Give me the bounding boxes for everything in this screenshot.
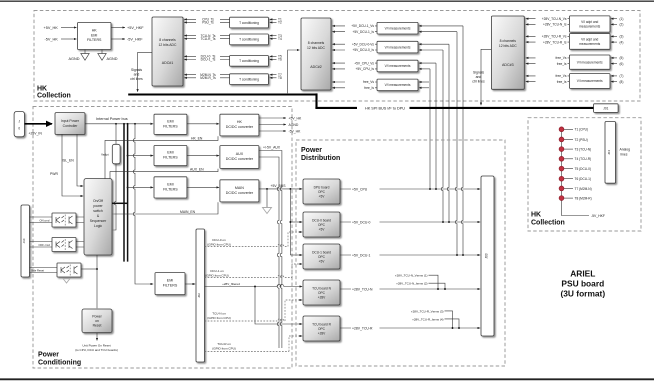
svg-text:+28V_TCU-N_Vsens (1): +28V_TCU-N_Vsens (1) xyxy=(395,274,428,278)
dashed box Power Conditioning xyxy=(33,107,292,369)
svg-text:J02: J02 xyxy=(197,293,201,298)
svg-text:+28V: +28V xyxy=(318,331,326,335)
svg-text:(3U format): (3U format) xyxy=(560,289,605,299)
svg-text:(3): (3) xyxy=(620,35,624,39)
connector J03 power outputs xyxy=(481,176,494,336)
wire vertical sense +5V_DCU-1 Is xyxy=(455,32,457,255)
wire DCU-0 on (GPIO from CPU) xyxy=(205,232,303,247)
wire +28V_filtered J02 to TCU-N OPC xyxy=(205,282,303,286)
wire T7 into T conditioning xyxy=(270,73,282,77)
block OPC DCU-1 board xyxy=(303,244,340,269)
optocoupler ON command xyxy=(52,213,76,227)
svg-text:Collection: Collection xyxy=(37,93,71,100)
wire J10 to ON optocoupler xyxy=(30,217,53,223)
svg-text:T2 (PSU): T2 (PSU) xyxy=(575,138,588,142)
svg-text:(GPIO from CPU): (GPIO from CPU) xyxy=(205,273,229,277)
svg-text:free_Vs: free_Vs xyxy=(556,56,567,60)
label Power Distribution xyxy=(301,147,340,162)
wire pin (6) into V/I block xyxy=(611,62,624,66)
connector J04 analog lines xyxy=(605,122,616,184)
wire +28V_TCU-N_Vs into ADC#3 xyxy=(526,17,570,21)
svg-text:+5V: +5V xyxy=(319,259,326,263)
wire +5V_HK into HK EMI filter xyxy=(44,26,77,30)
wire -5V_HKF output xyxy=(111,37,143,41)
wire Vadj line down to sequencer xyxy=(113,124,117,230)
label +28V_TCU-N_Isens (2) tap xyxy=(396,282,446,290)
wire EMI2 to AUX DC/DC xyxy=(187,155,219,157)
wire EMI1 to HK DC/DC xyxy=(187,123,219,125)
svg-text:ctrl lines: ctrl lines xyxy=(472,80,485,84)
svg-text:OPC: OPC xyxy=(318,291,326,295)
svg-text:FILTERS: FILTERS xyxy=(163,188,178,192)
svg-text:+28V_TCU-R_Vs: +28V_TCU-R_Vs xyxy=(542,35,567,39)
wire +28V_TCU-N output to J03 xyxy=(340,287,480,292)
wire PSU_Ts into ADC#1 xyxy=(184,21,229,25)
wire vertical sense +5V_DCU-1 Vs xyxy=(461,26,463,255)
wire switch output to +28V bus pair xyxy=(112,202,128,204)
node junction +28V_filtered branch xyxy=(254,286,256,288)
label Analog lines xyxy=(620,148,631,157)
wire M2M-N_Ts into ADC#1 xyxy=(184,73,229,77)
wire CPU Is sense feed xyxy=(419,68,430,70)
block Vadpt regulator xyxy=(101,144,120,164)
ground AGND right xyxy=(98,50,118,62)
bus HK SPI BUS right segment xyxy=(410,107,595,109)
wire +28V_IN arrow J0 to Input Power Controller xyxy=(25,124,53,136)
svg-text:MAIN: MAIN xyxy=(235,186,244,190)
dashed box HK Collection (top) xyxy=(34,11,640,102)
block V/I measurements 3 xyxy=(377,60,418,72)
block V/I measurements 3 (ADC#3) xyxy=(569,55,610,69)
svg-text:HK: HK xyxy=(531,212,541,219)
svg-text:8 channels: 8 channels xyxy=(308,41,325,45)
svg-text:+/-5V_AUX: +/-5V_AUX xyxy=(263,146,281,150)
filter U-HKEMI HK EMI FILTERS xyxy=(78,23,112,50)
filter U-EMI4 EMI FILTERS (+28V dist) xyxy=(155,273,185,295)
svg-text:V/I measurements: V/I measurements xyxy=(577,79,603,83)
connector J02 power distribution control xyxy=(196,229,205,362)
wire DCU-1 on (GPIO from CPU) xyxy=(205,264,303,278)
svg-text:0: 0 xyxy=(18,126,20,130)
svg-text:Analog: Analog xyxy=(620,148,631,152)
wire +28V_filtered branch to TCU-R OPC xyxy=(255,287,302,325)
svg-text:Power: Power xyxy=(38,352,59,359)
wire ON optocoupler to sequencer xyxy=(76,217,84,223)
wire unit power on reset output xyxy=(96,333,98,341)
svg-text:T6: T6 xyxy=(278,58,282,62)
svg-text:HK: HK xyxy=(237,120,243,124)
wire +5V_CPU output to J03 xyxy=(340,187,480,192)
node junction +5V DCU-0 tap xyxy=(289,221,291,223)
thermistor T3 sensor dot and label xyxy=(559,147,591,152)
svg-text:OFF cmd: OFF cmd xyxy=(39,243,51,247)
svg-text:+28V_TCU-R_Is: +28V_TCU-R_Is xyxy=(543,40,567,44)
label Unit Power On Reset xyxy=(75,343,118,352)
wire +/-5V_AUX rail A xyxy=(259,146,282,348)
block OPC TCU board N xyxy=(303,280,340,305)
svg-text:V/I measurements: V/I measurements xyxy=(385,26,411,30)
block T conditioning 1 xyxy=(230,17,269,28)
svg-text:lines: lines xyxy=(621,153,628,157)
wire internal power bus IPC to EMI filter 1 xyxy=(85,117,153,124)
thermistor T7 sensor dot and label xyxy=(559,186,592,191)
wire -5V_HK output of HK DC/DC xyxy=(259,129,301,133)
svg-text:+28V_TCU-N_Vs: +28V_TCU-N_Vs xyxy=(542,17,567,21)
svg-text:Power: Power xyxy=(301,147,322,154)
wire thermistor common return xyxy=(562,129,590,215)
svg-text:V/I measurements: V/I measurements xyxy=(577,60,603,64)
thermistor T4 sensor dot and label xyxy=(559,156,591,161)
svg-text:+28V_TCU-R_Vsens (3): +28V_TCU-R_Vsens (3) xyxy=(411,309,444,313)
svg-text:+5V_DCU-0: +5V_DCU-0 xyxy=(352,220,370,224)
svg-text:TCU board R: TCU board R xyxy=(312,322,331,326)
svg-text:+28V: +28V xyxy=(318,295,326,299)
svg-text:OPC: OPC xyxy=(318,255,326,259)
block OPC DPU board xyxy=(303,179,340,204)
svg-text:T conditioning: T conditioning xyxy=(239,77,259,81)
wire pin (8) into V/I block xyxy=(611,80,624,84)
svg-text:+28V_TCU-N_Is: +28V_TCU-N_Is xyxy=(543,23,567,27)
svg-text:T4: T4 xyxy=(278,37,282,41)
svg-text:AGND: AGND xyxy=(69,57,80,61)
svg-text:+5V_CPU: +5V_CPU xyxy=(352,187,368,191)
svg-text:(5): (5) xyxy=(620,56,624,60)
svg-text:AUX_EN: AUX_EN xyxy=(190,168,204,172)
node junction +5V distribution tap xyxy=(289,188,291,190)
label HK Collection (thermistors) xyxy=(531,212,565,227)
block U-IPC Input Power Controller xyxy=(55,113,85,135)
label Signals and ctrl lines (ADC#1) xyxy=(130,68,143,81)
wire +5V_CPU_Is into ADC#2 xyxy=(332,67,377,71)
svg-text:FILTERS: FILTERS xyxy=(163,156,178,160)
svg-text:DCU-1 board: DCU-1 board xyxy=(312,250,331,254)
wire CPU_Ts into ADC#1 xyxy=(184,18,229,22)
wire PWR IPC to sequencer xyxy=(50,134,83,196)
svg-text:DCU-0 on: DCU-0 on xyxy=(212,238,226,242)
block U-SEQ On/Off power switch and Sequencer Logic xyxy=(84,179,112,255)
wire vertical sense +5V_DCU-0 Vs xyxy=(447,44,449,222)
connector J0 +28V input xyxy=(14,111,24,136)
svg-text:J01: J01 xyxy=(603,107,608,111)
svg-text:+5V_BUS: +5V_BUS xyxy=(271,184,287,188)
block V/I adpt and measurements 2 (ADC#3) xyxy=(569,34,610,50)
svg-text:AUX: AUX xyxy=(236,152,244,156)
wire pin (1) into V/I block xyxy=(611,17,624,21)
wire TCU-R_Ts into ADC#1 xyxy=(184,37,229,41)
wire EMI4 to J02 xyxy=(185,283,195,285)
svg-text:TCU-R_Ts: TCU-R_Ts xyxy=(201,37,216,41)
ground AGND left xyxy=(69,50,90,62)
svg-text:OPC: OPC xyxy=(318,223,326,227)
label +28V_TCU-N_Vsens (1) tap xyxy=(395,274,439,290)
svg-text:(GPIO from CPU): (GPIO from CPU) xyxy=(207,242,231,246)
thermistor T2 sensor dot and label xyxy=(559,137,588,142)
svg-text:(2): (2) xyxy=(620,23,624,27)
wire -5V_HK into HK EMI filter xyxy=(45,37,77,41)
svg-text:EMI: EMI xyxy=(167,151,173,155)
svg-text:+28V_TCU-R_Isens (4): +28V_TCU-R_Isens (4) xyxy=(412,317,443,321)
svg-text:12 bits ADC: 12 bits ADC xyxy=(307,46,325,50)
svg-text:DCU-1_Ts: DCU-1_Ts xyxy=(201,58,216,62)
svg-text:measurements: measurements xyxy=(579,24,600,28)
bus HK SPI BUS middle segment xyxy=(315,107,357,109)
wire TCU-R on (GPIO from CPU) xyxy=(205,336,303,352)
wire ISL_EN IPC to sequencer xyxy=(62,134,83,186)
wire CPU Vs sense feed xyxy=(419,62,436,64)
svg-text:free_Is: free_Is xyxy=(557,80,567,84)
svg-text:on: on xyxy=(95,319,99,323)
svg-text:FILTERS: FILTERS xyxy=(163,124,178,128)
wire +5V_DCU-0_Is into ADC#2 xyxy=(332,48,377,52)
svg-text:V/I measurements: V/I measurements xyxy=(385,83,411,87)
svg-text:EMI: EMI xyxy=(167,183,173,187)
block V/I adpt and measurements 1 (ADC#3) xyxy=(569,16,610,32)
wire +/-5V_AUX rail B xyxy=(259,157,279,348)
svg-text:Distribution: Distribution xyxy=(301,155,340,162)
svg-text:+5V: +5V xyxy=(319,227,326,231)
wire T3 into T conditioning xyxy=(270,34,282,38)
svg-text:Input Power: Input Power xyxy=(61,119,80,123)
wire +28V_TCU-R_Is into ADC#3 xyxy=(526,40,570,44)
svg-text:Signals: Signals xyxy=(473,71,484,75)
svg-text:and: and xyxy=(476,75,482,79)
svg-text:+5V_HK: +5V_HK xyxy=(44,26,59,30)
wire EMI3 to MAIN DC/DC xyxy=(187,186,219,188)
svg-text:Side Reset: Side Reset xyxy=(31,268,44,272)
wire +5V feed to DCU-1 OPC xyxy=(290,254,302,256)
svg-text:EMI: EMI xyxy=(91,33,97,37)
svg-text:HK SPI BUS I/F to DPU: HK SPI BUS I/F to DPU xyxy=(365,106,405,110)
label Signals and ctrl lines (ADC#3) xyxy=(472,71,485,84)
wire +5V_DCU-0 output to J03 xyxy=(340,220,480,225)
thermistor T5 sensor dot and label xyxy=(559,166,591,171)
svg-text:free_Is: free_Is xyxy=(364,86,374,90)
wire signals/ctrl ADC#1 to HK SPI bus xyxy=(138,52,152,91)
svg-text:T3 (TCU-N): T3 (TCU-N) xyxy=(575,148,592,152)
svg-text:DC/DC converter: DC/DC converter xyxy=(226,191,254,195)
wire free_Vs into ADC#3 xyxy=(526,56,570,60)
filter U-EMI3 EMI FILTERS (MAIN) xyxy=(154,177,187,198)
svg-text:+5V_HKF: +5V_HKF xyxy=(127,26,144,30)
svg-text:-5V_HK: -5V_HK xyxy=(45,37,59,41)
svg-text:+28V_filtered: +28V_filtered xyxy=(222,282,240,286)
svg-text:V/I measurements: V/I measurements xyxy=(385,64,411,68)
optocoupler OFF command xyxy=(52,238,76,252)
svg-text:(GPIO from CPU): (GPIO from CPU) xyxy=(212,347,236,351)
block T conditioning 2 xyxy=(230,34,269,45)
svg-text:AGND: AGND xyxy=(289,123,299,127)
thermistor T8 sensor dot and label xyxy=(559,196,592,201)
slide top border line xyxy=(0,0,654,2)
svg-text:Signals: Signals xyxy=(131,68,142,72)
svg-text:+5V_CPU_Is: +5V_CPU_Is xyxy=(355,67,374,71)
wire +28V power bus vertical pair B xyxy=(127,124,129,262)
wire +28V power bus vertical pair A xyxy=(123,124,125,262)
node junction ground tap on +5V_BUS xyxy=(266,188,268,190)
svg-text:FILTERS: FILTERS xyxy=(163,284,178,288)
svg-text:measurements: measurements xyxy=(579,42,600,46)
svg-text:J04: J04 xyxy=(607,150,611,155)
node junction Vadj tap xyxy=(115,123,117,125)
svg-text:PSU_Ts: PSU_Ts xyxy=(202,21,214,25)
node junction power bus pair taps xyxy=(123,123,136,125)
bus HK SPI BUS left segment xyxy=(128,93,316,95)
svg-text:+28V_TCU-R: +28V_TCU-R xyxy=(352,326,373,330)
svg-text:Logic: Logic xyxy=(94,224,102,228)
wire T2 into T conditioning xyxy=(270,21,282,25)
svg-text:T8: T8 xyxy=(278,76,282,80)
svg-text:-5V_HKF: -5V_HKF xyxy=(591,214,605,218)
label HK Collection (top) xyxy=(37,85,71,99)
label Power Conditioning xyxy=(38,352,81,367)
svg-text:V/I measurements: V/I measurements xyxy=(385,45,411,49)
wire +5V distribution vertical to DCU rows xyxy=(289,189,291,255)
wire vertical sense +5V_CPU Vs xyxy=(429,69,431,189)
svg-text:+28V_TCU-N_Isens (2): +28V_TCU-N_Isens (2) xyxy=(396,282,427,286)
filter U-EMI2 EMI FILTERS (AUX) xyxy=(154,146,187,166)
svg-text:ARIEL: ARIEL xyxy=(570,268,595,278)
svg-text:FILTERS: FILTERS xyxy=(87,38,102,42)
svg-text:(to CPU, DCU and TCU boards): (to CPU, DCU and TCU boards) xyxy=(75,348,118,352)
svg-text:(8): (8) xyxy=(620,80,624,84)
wire free stub 1 on V/I measurements 4 xyxy=(419,81,429,83)
svg-text:EMI: EMI xyxy=(167,279,173,283)
svg-text:Conditioning: Conditioning xyxy=(38,359,81,366)
svg-text:Power: Power xyxy=(92,315,102,319)
wire T6 into T conditioning xyxy=(270,58,282,62)
wire pin (7) into V/I block xyxy=(611,74,624,78)
wire sequencer to Power on Reset xyxy=(96,255,98,308)
svg-text:T1 (CPU): T1 (CPU) xyxy=(575,128,588,132)
svg-text:PSU board: PSU board xyxy=(561,279,604,289)
svg-text:and: and xyxy=(134,73,140,77)
svg-text:ADC#3: ADC#3 xyxy=(502,63,514,67)
wire MAIN_EN enable xyxy=(112,202,218,214)
wire free stub 2 on V/I measurements 4 xyxy=(419,87,429,89)
dashed box HK Collection (thermistors) xyxy=(528,118,641,231)
block OPC TCU board R xyxy=(303,316,340,341)
svg-text:PWR: PWR xyxy=(50,172,58,176)
svg-text:TCU-N on: TCU-N on xyxy=(212,312,226,316)
svg-text:DPU board: DPU board xyxy=(314,185,330,189)
wire DCU-0_Ts into ADC#1 xyxy=(184,55,229,59)
svg-text:HK: HK xyxy=(37,85,47,92)
dashed box Power Distribution xyxy=(296,140,505,366)
wire +5V_DCU-1_Vs into ADC#2 xyxy=(332,24,377,28)
block U-MAINDC MAIN DC/DC converter xyxy=(220,180,259,202)
svg-text:+28V_IN: +28V_IN xyxy=(29,131,43,135)
wire pin (2) into V/I block xyxy=(611,23,624,27)
svg-text:+5V_DCU-1_Vs: +5V_DCU-1_Vs xyxy=(351,24,374,28)
svg-text:HK_EN: HK_EN xyxy=(191,136,203,140)
svg-text:(GPIO from CPU): (GPIO from CPU) xyxy=(207,316,231,320)
wire free_Vs into ADC#2 xyxy=(332,80,377,84)
svg-text:-5V_HKF: -5V_HKF xyxy=(127,37,143,41)
wire DCU-1_Ts into ADC#1 xyxy=(184,58,229,62)
svg-text:free_Vs: free_Vs xyxy=(556,74,567,78)
wire free_Is into ADC#3 xyxy=(526,62,570,66)
block V/I measurements 4 xyxy=(377,79,418,91)
svg-text:ADC#2: ADC#2 xyxy=(310,65,322,69)
wire +28V_TCU-N_Is into ADC#3 xyxy=(526,23,570,27)
svg-text:Unit Power On Reset: Unit Power On Reset xyxy=(82,343,110,347)
svg-text:J03: J03 xyxy=(485,253,489,258)
block T conditioning 4 xyxy=(230,74,269,85)
svg-text:8 channels: 8 channels xyxy=(159,38,176,42)
wire T5 into T conditioning xyxy=(270,55,282,59)
svg-text:AGND: AGND xyxy=(107,57,118,61)
wire +5V feed to DCU-0 OPC xyxy=(290,221,302,223)
block T conditioning 3 xyxy=(230,56,269,67)
wire pin (3) into V/I block xyxy=(611,35,624,39)
svg-text:ON cmd: ON cmd xyxy=(40,218,50,222)
wire +5V_DCU-1_Is into ADC#2 xyxy=(332,30,377,34)
svg-text:T4 (TCU-R): T4 (TCU-R) xyxy=(575,157,592,161)
svg-text:-5V_HK: -5V_HK xyxy=(289,129,302,133)
wire DCU-0 Vs sense feed xyxy=(419,43,449,45)
svg-text:On/Off: On/Off xyxy=(93,199,103,203)
wire DCU-0 Is sense feed xyxy=(419,49,443,51)
svg-text:M2M-R_Ts: M2M-R_Ts xyxy=(200,76,216,80)
wire vertical sense +5V_DCU-0 Is xyxy=(441,50,443,222)
svg-text:MAIN_EN: MAIN_EN xyxy=(180,210,196,214)
wire +5V_DCU-0-Vs into ADC#2 xyxy=(332,42,377,46)
svg-text:T conditioning: T conditioning xyxy=(239,59,259,63)
svg-text:DCU-1 on: DCU-1 on xyxy=(210,269,224,273)
wire T4 into T conditioning xyxy=(270,37,282,41)
wire ground drop from +5V_BUS xyxy=(266,189,268,208)
svg-text:T2: T2 xyxy=(278,21,282,25)
wire signals/ctrl ADC#2 to HK SPI bus xyxy=(288,50,300,93)
svg-text:DC/DC converter: DC/DC converter xyxy=(226,157,254,161)
svg-text:TCU-R on: TCU-R on xyxy=(217,342,231,346)
wire branch to EMI filter 2 xyxy=(127,155,154,157)
wire AGND output of HK DC/DC xyxy=(259,123,299,127)
wire +5V_HK output of HK DC/DC xyxy=(259,116,302,120)
svg-text:Sequencer: Sequencer xyxy=(90,219,107,223)
wire J10 to reset optocoupler xyxy=(30,268,58,273)
svg-text:8 channels: 8 channels xyxy=(500,39,517,43)
wire reset optocoupler to POR line xyxy=(81,268,98,270)
svg-text:T5 (DCU-0): T5 (DCU-0) xyxy=(575,167,591,171)
thermistor T1 sensor dot and label xyxy=(559,127,588,132)
svg-text:T6 (DCU-1): T6 (DCU-1) xyxy=(575,177,591,181)
filter U-EMI1 EMI FILTERS (HK) xyxy=(154,114,187,134)
svg-text:(4): (4) xyxy=(620,40,624,44)
svg-text:+5V_HK: +5V_HK xyxy=(289,116,302,120)
svg-text:12 bits ADC: 12 bits ADC xyxy=(159,43,177,47)
ground small below reset opto xyxy=(63,279,70,284)
optocoupler external reset xyxy=(57,263,81,277)
wire pin (4) into V/I block xyxy=(611,40,624,44)
connector J01 HK SPI xyxy=(594,104,619,113)
thermistor T6 sensor dot and label xyxy=(559,176,591,181)
svg-text:+5V_DCU-0_Is: +5V_DCU-0_Is xyxy=(352,48,374,52)
wire TCU-N_Ts into ADC#1 xyxy=(184,34,229,38)
wire free_Is into ADC#2 xyxy=(332,86,377,90)
wire J10 to OFF optocoupler xyxy=(30,242,53,248)
svg-text:DCU-0 board: DCU-0 board xyxy=(312,218,331,222)
svg-text:free_Vs: free_Vs xyxy=(363,80,374,84)
svg-text:EMI: EMI xyxy=(167,119,173,123)
ADC U3 ADC#3 8 channels 12 bits xyxy=(491,16,524,89)
wire T8 into T conditioning xyxy=(270,76,282,80)
ground AGND below MAIN DC/DC xyxy=(263,208,272,214)
svg-text:Collection: Collection xyxy=(531,219,565,226)
block U-AUXDC AUX DC/DC converter xyxy=(220,146,259,169)
svg-text:OPC: OPC xyxy=(318,327,326,331)
svg-text:+5V_CPU_Vs: +5V_CPU_Vs xyxy=(354,61,374,65)
